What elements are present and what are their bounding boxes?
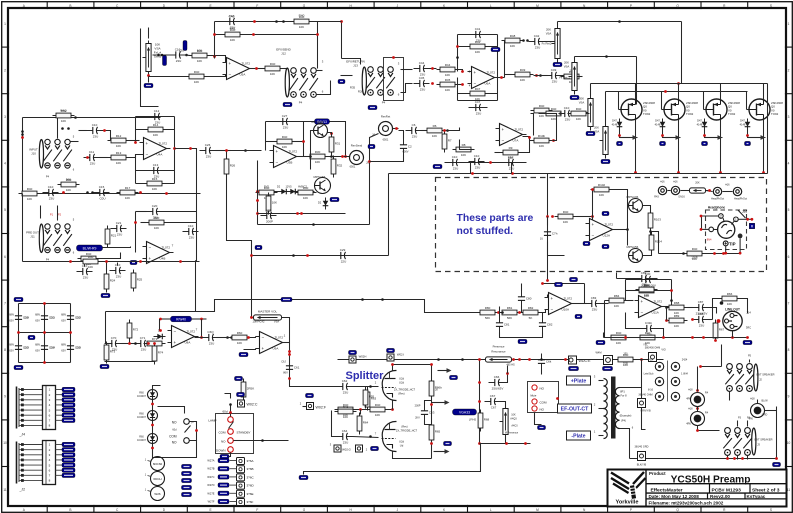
svg-text:R9: R9	[509, 146, 513, 150]
svg-text:2KV: 2KV	[415, 417, 420, 420]
wire w	[106, 290, 108, 293]
connector W02C	[238, 400, 258, 407]
junction dd2	[21, 133, 24, 136]
node ne3	[341, 155, 344, 158]
wire w	[225, 394, 231, 399]
svg-text:C67: C67	[491, 406, 497, 410]
potentiometer VR Reverb	[585, 96, 594, 130]
resistor R31	[329, 134, 340, 156]
node ni1	[518, 358, 521, 361]
svg-text:VSA: VSA	[546, 32, 552, 36]
junction df1	[134, 342, 137, 345]
svg-text:R89: R89	[674, 314, 680, 318]
net label gnd tube2	[702, 141, 708, 145]
svg-text:Fx Ret 1: Fx Ret 1	[559, 76, 570, 80]
svg-text:23U: 23U	[93, 135, 99, 139]
svg-text:C47: C47	[475, 100, 481, 104]
wire fb top	[543, 283, 585, 285]
wire vert369	[370, 134, 379, 225]
svg-text:YCS50H Preamp: YCS50H Preamp	[671, 475, 751, 486]
svg-text:23U: 23U	[209, 342, 215, 346]
resistor R30	[307, 150, 329, 164]
svg-text:R40: R40	[194, 70, 200, 74]
svg-text:23U: 23U	[412, 135, 418, 139]
connector J2	[17, 441, 56, 492]
wire w	[575, 76, 583, 78]
capacitor C42	[529, 34, 545, 50]
svg-text:R15: R15	[152, 177, 158, 181]
wire w	[303, 122, 305, 157]
port label EF-OUT-CT	[558, 404, 592, 413]
junction df4	[226, 336, 229, 339]
wire w	[749, 360, 751, 363]
svg-text:C66: C66	[494, 375, 500, 379]
svg-text:C0U: C0U	[99, 197, 105, 201]
node nf18	[159, 329, 162, 332]
svg-text:C6J: C6J	[281, 360, 286, 364]
svg-text:R40: R40	[27, 187, 33, 191]
svg-text:5K: 5K	[529, 316, 533, 320]
wire w	[460, 140, 475, 150]
wire w	[469, 107, 488, 109]
svg-text:R102: R102	[598, 183, 606, 187]
svg-text:−: −	[149, 245, 152, 250]
svg-text:E: E	[210, 4, 212, 8]
svg-text:10K: 10K	[511, 414, 516, 417]
svg-text:68N: 68N	[35, 343, 40, 347]
svg-text:#16: #16	[725, 184, 730, 187]
jack J16 headphone	[706, 210, 747, 250]
svg-text:10K: 10K	[116, 144, 121, 148]
wire w	[432, 402, 434, 404]
wire w	[737, 421, 739, 427]
resistor R32	[331, 156, 342, 178]
capacitor C20	[147, 204, 163, 220]
node nf19	[250, 254, 253, 257]
wire sec bot	[620, 429, 630, 459]
wire vert fx1	[341, 22, 343, 59]
svg-text:MPSA56: MPSA56	[314, 175, 326, 179]
svg-text:R30: R30	[315, 150, 321, 154]
junction de1	[244, 149, 247, 152]
wire stub511	[511, 163, 513, 174]
potentiometer VR presence	[500, 406, 509, 438]
net label J2 lbl3	[62, 458, 75, 462]
svg-text:EF-OUT-CT: EF-OUT-CT	[561, 406, 589, 412]
resistor R10	[53, 109, 75, 123]
wire w	[329, 156, 350, 158]
svg-text:20K: 20K	[695, 182, 700, 185]
node nf4	[69, 331, 72, 334]
svg-text:C11: C11	[89, 150, 95, 154]
svg-text:C10: C10	[92, 123, 98, 127]
port label BLW-R9	[77, 245, 103, 251]
wire w	[534, 75, 548, 77]
svg-text:LAMP: LAMP	[208, 419, 216, 423]
svg-text:U5A: U5A	[240, 73, 246, 77]
svg-text:D47: D47	[612, 119, 617, 123]
junction da0	[157, 54, 160, 57]
wire vert388	[388, 174, 390, 256]
svg-text:2X_TRIODE_HCT: 2X_TRIODE_HCT	[396, 429, 418, 433]
wire vert257	[257, 161, 259, 225]
node nd6	[189, 147, 192, 150]
svg-text:2: 2	[788, 68, 790, 72]
wire vert105	[105, 312, 107, 344]
svg-text:C10: C10	[452, 155, 458, 159]
junction dh3	[682, 252, 685, 255]
wire drain 1	[635, 84, 637, 100]
svg-text:+: +	[174, 340, 177, 345]
svg-text:Mute: Mute	[531, 394, 537, 398]
svg-text:J4: J4	[372, 133, 375, 137]
resistor R in A	[189, 49, 211, 63]
junction di2	[461, 358, 464, 361]
junction de3	[312, 223, 315, 226]
wire w	[642, 408, 646, 430]
node nd7	[62, 191, 65, 194]
wire src net 1	[620, 123, 638, 138]
node nf7	[128, 342, 131, 345]
svg-text:4R6: 4R6	[748, 418, 753, 421]
svg-text:10K: 10K	[599, 193, 604, 197]
svg-text:For 8: For 8	[620, 394, 627, 398]
svg-text:23U: 23U	[49, 197, 55, 201]
node nk4	[195, 429, 198, 432]
net label gndC4	[601, 159, 610, 163]
svg-text:J10: J10	[31, 152, 36, 156]
svg-text:10K: 10K	[152, 187, 157, 191]
svg-text:2R5K: 2R5K	[247, 387, 255, 391]
svg-text:R26: R26	[358, 90, 364, 94]
wire right side	[767, 84, 769, 174]
capacitor C80	[518, 291, 532, 307]
svg-text:W27F: W27F	[208, 500, 215, 504]
svg-text:C63: C63	[429, 411, 435, 415]
svg-text:(P4): (P4)	[621, 419, 626, 423]
svg-text:Sheet 2 of 3: Sheet 2 of 3	[752, 487, 780, 493]
svg-text:COM: COM	[219, 431, 227, 435]
net label gndE	[433, 164, 442, 168]
svg-text:C31: C31	[266, 208, 272, 212]
svg-text:R20: R20	[154, 216, 160, 220]
transistor Q4	[627, 245, 643, 263]
resistor R61	[367, 403, 389, 417]
svg-text:10K: 10K	[475, 50, 480, 54]
junction dc2	[605, 55, 608, 58]
node nf10	[250, 316, 253, 319]
wire w	[590, 84, 592, 96]
switch standby box	[216, 414, 254, 454]
net label gndC3	[586, 131, 595, 135]
resistor R77	[615, 353, 637, 367]
svg-text:+: +	[146, 141, 149, 146]
svg-text:C2: C2	[408, 145, 412, 149]
svg-text:10K: 10K	[727, 302, 732, 306]
wire w	[458, 34, 498, 36]
svg-text:EXT SPEAKER: EXT SPEAKER	[755, 438, 773, 442]
svg-text:2: 2	[4, 68, 6, 72]
svg-text:6501: 6501	[383, 138, 389, 142]
node nb8	[535, 74, 538, 77]
wire w	[713, 299, 719, 320]
net label J2 lbl1	[62, 447, 75, 451]
capacitor C fb A	[224, 14, 240, 30]
wire w	[226, 151, 228, 159]
svg-text:R/W40: R/W40	[176, 318, 186, 322]
junction db3	[539, 74, 542, 77]
wire w	[547, 217, 549, 226]
svg-text:P2: P2	[58, 213, 62, 217]
node nb1	[392, 56, 395, 59]
wire w	[459, 70, 463, 72]
junction dk1	[261, 439, 264, 442]
node nh11	[746, 218, 749, 221]
svg-text:P4: P4	[46, 258, 50, 262]
connector grd box	[638, 452, 646, 461]
svg-text:+: +	[474, 70, 477, 75]
capacitor C60	[203, 330, 219, 346]
capacitor C27	[277, 114, 293, 130]
wire w	[688, 307, 693, 309]
svg-text:R40: R40	[299, 14, 305, 18]
svg-text:Filename: mt293v200sch.sch 200: Filename: mt293v200sch.sch 2002	[649, 501, 724, 506]
wire w	[317, 70, 323, 72]
svg-text:56K: 56K	[485, 316, 490, 320]
svg-text:R40: R40	[616, 331, 622, 335]
wire w	[318, 21, 342, 23]
node nd1	[21, 136, 24, 139]
svg-text:NO: NO	[540, 387, 545, 391]
port label VPLATE	[453, 409, 477, 415]
wire wv	[697, 367, 699, 392]
svg-text:−: −	[551, 307, 554, 312]
connector WM	[604, 356, 613, 365]
net label gnd tube1	[660, 141, 666, 145]
wire w	[636, 92, 638, 105]
svg-text:3?6D: 3?6D	[247, 484, 255, 488]
net label lblJ1	[569, 366, 579, 370]
connector grn box	[638, 399, 646, 408]
node nj4	[478, 442, 481, 445]
wire w	[617, 278, 636, 280]
jack J grd	[751, 404, 765, 418]
net label J4 lbl4	[62, 408, 75, 412]
wire w	[662, 306, 669, 308]
wire w	[545, 41, 558, 43]
svg-text:C13: C13	[153, 163, 159, 167]
resistor R34	[295, 186, 317, 200]
junction dk0	[229, 403, 232, 406]
svg-text:10K: 10K	[197, 49, 203, 53]
node nd9	[165, 192, 168, 195]
svg-text:Ud: Ud	[400, 444, 404, 448]
wire B+ rail	[338, 359, 664, 361]
node ng14	[717, 319, 721, 323]
wire w	[574, 57, 576, 61]
node nj3	[478, 400, 481, 403]
net label J2 lbl5	[62, 468, 75, 472]
resistor R fb A	[291, 15, 313, 29]
net label lblH1	[583, 241, 590, 245]
svg-text:M Presence: M Presence	[505, 432, 519, 435]
node nf14	[288, 377, 291, 380]
svg-text:10K: 10K	[674, 324, 679, 328]
indicator V10	[151, 457, 165, 471]
net label lblG1	[555, 282, 563, 286]
logo Yorkville	[611, 472, 646, 505]
wire w	[681, 190, 690, 192]
node ni7	[430, 403, 433, 406]
svg-text:63V: 63V	[35, 349, 40, 353]
svg-text:#18: #18	[688, 389, 693, 392]
svg-text:Lets/Sub: Lets/Sub	[644, 373, 654, 376]
svg-text:4R6: 4R6	[686, 398, 691, 401]
net label J4 lbl6	[62, 418, 75, 422]
svg-text:C10: C10	[508, 155, 514, 159]
wire w	[657, 329, 664, 338]
svg-text:U2d: U2d	[399, 377, 404, 381]
svg-text:RevRet: RevRet	[381, 115, 391, 119]
wire vert into opamp	[592, 190, 594, 223]
svg-text:R13: R13	[116, 151, 122, 155]
svg-text:4148: 4148	[612, 123, 618, 127]
node nf6	[147, 342, 150, 345]
svg-text:−: −	[502, 138, 505, 143]
svg-text:23U: 23U	[552, 80, 558, 84]
capacitor C82	[539, 317, 553, 333]
svg-text:10K: 10K	[66, 188, 71, 192]
wire w	[446, 128, 460, 131]
capacitor C12	[149, 109, 165, 125]
svg-text:Presence: Presence	[493, 345, 505, 349]
svg-text:TL072: TL072	[159, 142, 168, 146]
node ne16	[344, 155, 347, 158]
switch standby	[208, 410, 250, 453]
svg-text:+: +	[502, 127, 505, 132]
capacitor C26	[200, 143, 216, 159]
wire w	[217, 337, 229, 339]
resistor R87	[608, 331, 630, 345]
wire w	[697, 407, 699, 412]
wire drain 4	[763, 84, 765, 100]
resistor R72	[127, 320, 138, 342]
node ne5	[256, 190, 259, 193]
node nb0	[340, 20, 343, 23]
wire w	[723, 191, 733, 193]
svg-text:Headphone: Headphone	[708, 206, 726, 210]
capacitor C31	[261, 208, 277, 224]
resistor R12	[108, 134, 130, 148]
svg-text:C40: C40	[229, 15, 235, 19]
svg-text:W02:C: W02:C	[247, 403, 258, 407]
wire q1 base drop	[311, 131, 314, 170]
jack J RevSend	[350, 151, 364, 165]
svg-text:56K: 56K	[66, 178, 72, 182]
svg-text:R49: R49	[520, 68, 526, 72]
node ne13b	[552, 139, 555, 142]
svg-text:10K: 10K	[194, 80, 199, 84]
note these parts are not stuffed	[457, 213, 534, 237]
svg-text:1: 1	[4, 22, 6, 26]
svg-text:R31: R31	[335, 142, 341, 146]
net label lbl fx	[338, 79, 345, 83]
potentiometer VR input	[143, 41, 152, 75]
svg-text:10: 10	[787, 441, 791, 445]
net label gndG2	[596, 340, 605, 344]
net label lblF2	[28, 335, 35, 339]
resistor R56	[335, 405, 357, 419]
net label lblI2	[387, 348, 395, 352]
wire hp w3	[702, 228, 709, 230]
svg-text:R43: R43	[654, 196, 659, 199]
svg-text:M: M	[536, 4, 539, 8]
op-amp U4B	[143, 242, 174, 264]
node nf12	[288, 350, 291, 353]
svg-text:R44: R44	[445, 63, 451, 67]
wire w	[531, 114, 534, 136]
svg-text:R67: R67	[719, 328, 725, 332]
svg-text:#16: #16	[660, 181, 665, 184]
svg-text:W02H: W02H	[359, 355, 367, 359]
svg-text:10K: 10K	[343, 415, 348, 419]
wire row440	[241, 440, 289, 442]
resistor R26	[224, 156, 235, 178]
wire hp w1	[738, 218, 752, 220]
potentiometer VR resonance	[483, 357, 515, 362]
svg-text:8: 8	[788, 348, 790, 352]
transformer T1 core	[611, 377, 616, 439]
relay standby box	[528, 382, 559, 413]
resistor R66b	[429, 378, 442, 400]
svg-text:1N4007: 1N4007	[137, 416, 146, 419]
jack J avb2	[691, 412, 705, 426]
resistor R71	[144, 337, 166, 351]
svg-text:C67: C67	[490, 394, 496, 398]
svg-text:TL072: TL072	[654, 300, 663, 304]
svg-text:C10: C10	[564, 106, 570, 110]
svg-text:10K: 10K	[299, 25, 304, 29]
resistor R74	[152, 343, 163, 365]
wire w	[727, 456, 729, 460]
resistor R102	[591, 183, 613, 197]
net label gndF1	[14, 365, 23, 369]
resistor R101	[555, 210, 577, 224]
wire w	[401, 69, 413, 71]
svg-text:23U: 23U	[206, 155, 212, 159]
resistor R15	[144, 177, 166, 191]
capacitor C6k	[538, 354, 552, 370]
svg-text:(Rev): (Rev)	[401, 425, 407, 429]
capacitor C71	[135, 336, 151, 352]
junction dd1	[21, 130, 24, 133]
node nf11	[247, 336, 250, 339]
wire w	[103, 247, 131, 248]
resistor R73	[104, 342, 115, 364]
svg-text:6DC60: 6DC60	[153, 462, 163, 466]
wire w	[392, 365, 394, 371]
svg-text:23U: 23U	[592, 308, 598, 312]
svg-text:A4C0: A4C0	[511, 425, 518, 428]
svg-text:AVB/C2: AVB/C2	[298, 185, 308, 189]
svg-text:NO: NO	[172, 421, 177, 425]
wire vert 681	[681, 22, 683, 84]
net label lblB1	[491, 47, 500, 51]
svg-text:DOWN: DOWN	[216, 449, 226, 453]
dashed box not-stuffed	[436, 178, 767, 272]
jack J11 preout	[39, 224, 72, 253]
svg-text:C26: C26	[205, 143, 211, 147]
